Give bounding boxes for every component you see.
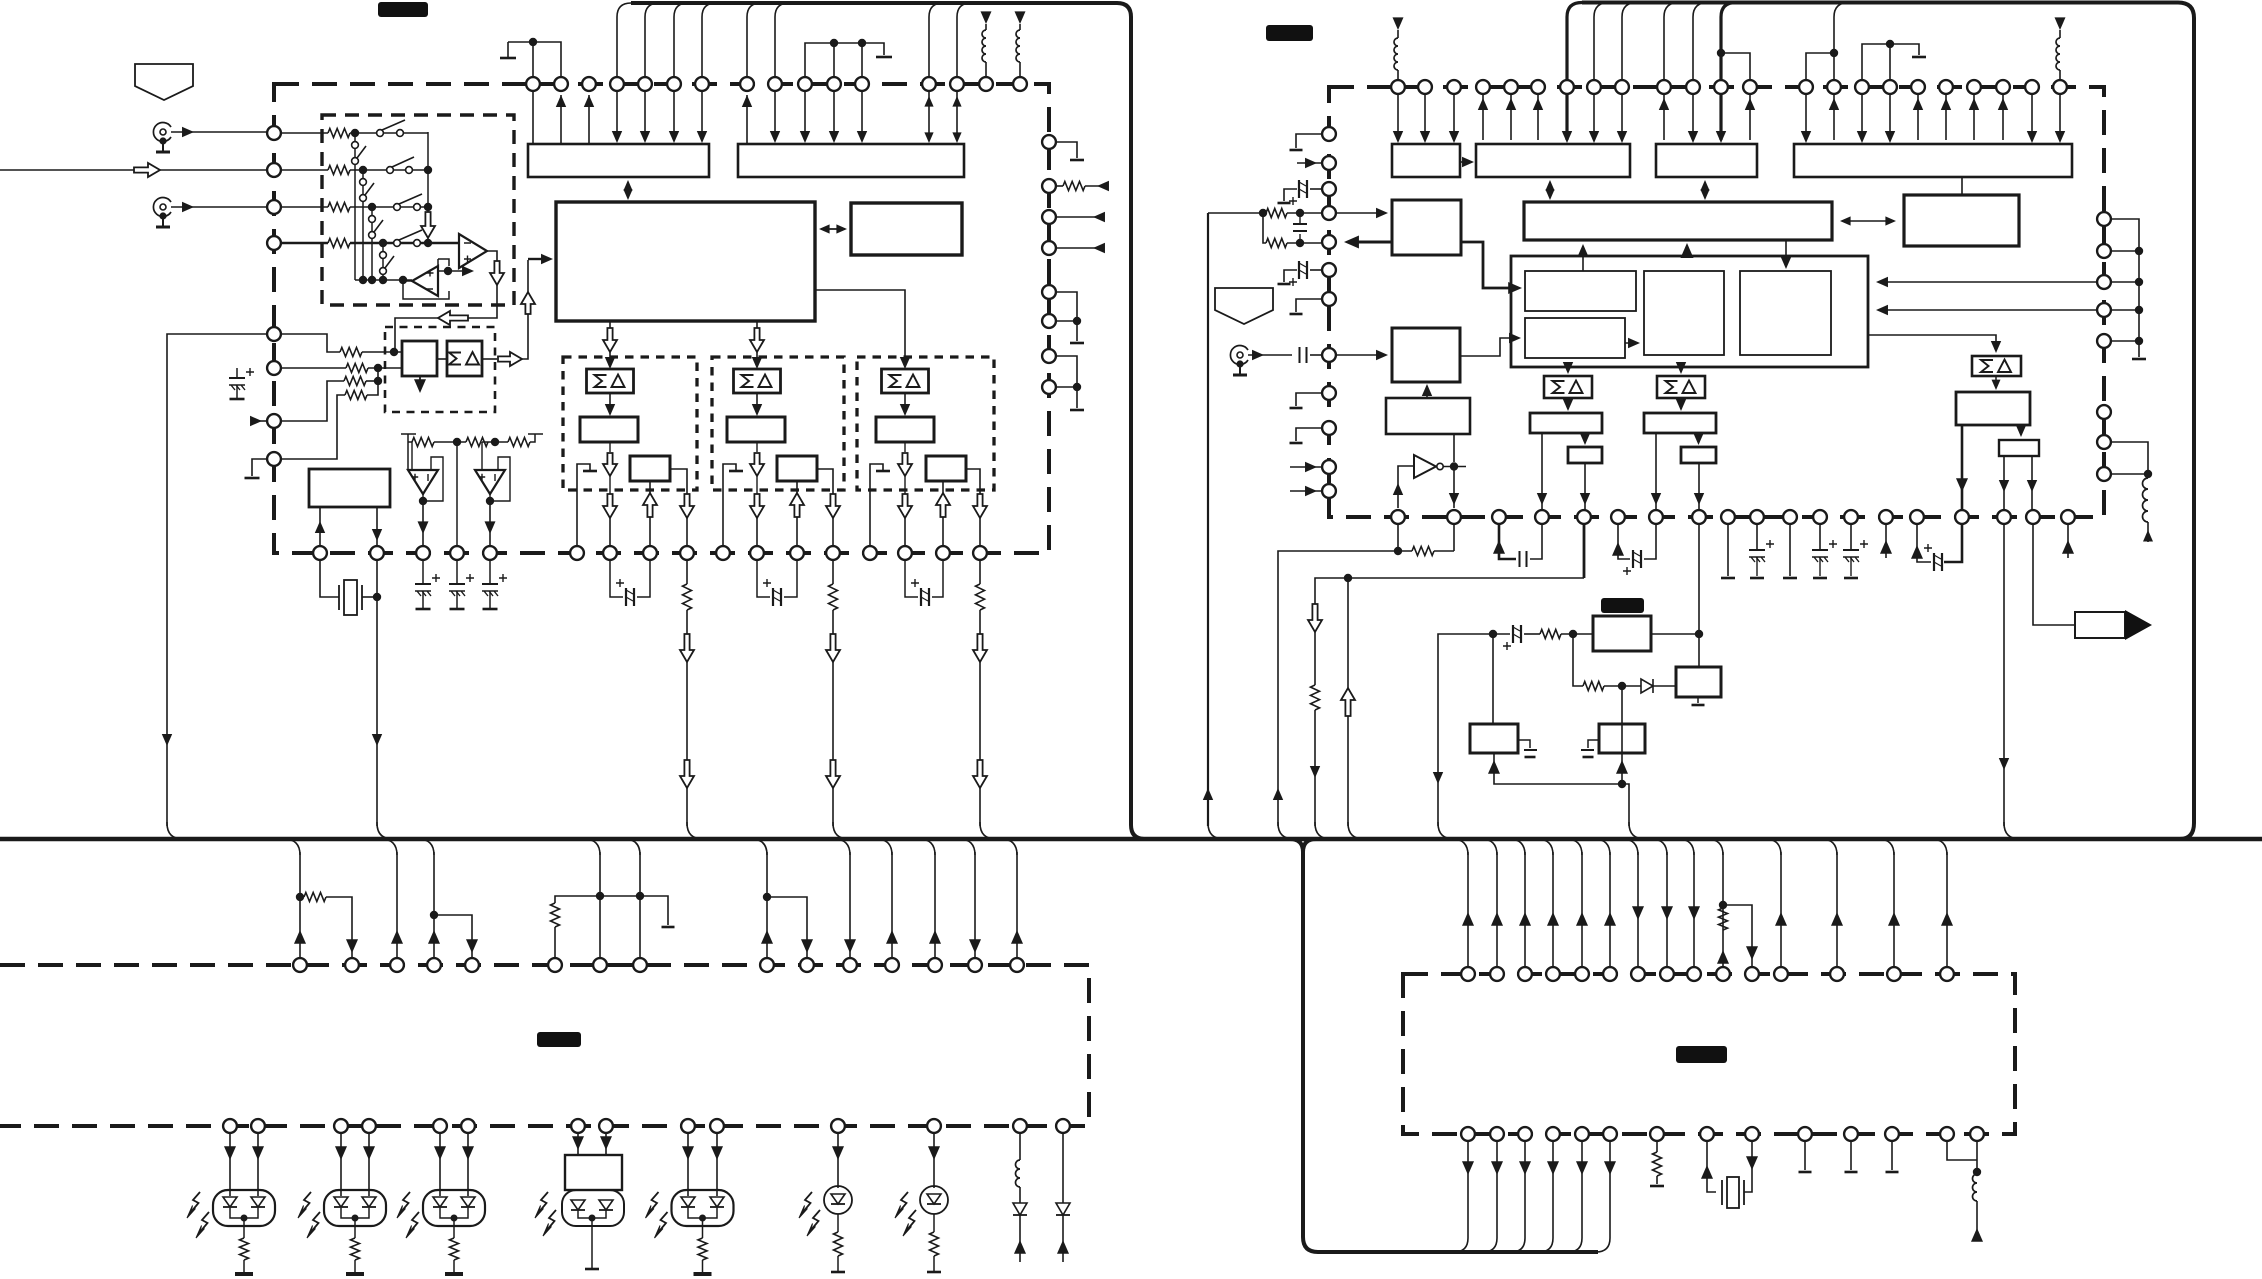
wire jack1 to pin bbox=[171, 131, 266, 133]
electrolytic cap pin y270 bbox=[1310, 269, 1321, 271]
wire pins to LED2 bbox=[341, 1134, 369, 1196]
dual IR LED module LED4 bbox=[562, 1190, 624, 1226]
wire pin x1594 into U4b bbox=[1593, 94, 1595, 140]
wire adc rowA into amp bbox=[362, 351, 402, 353]
IC3 bottom pin x578 bbox=[571, 1119, 585, 1133]
pentagon reference tag bbox=[135, 64, 193, 100]
IC3 bottom pin x1063 bbox=[1056, 1119, 1070, 1133]
arrow pin1886 stub bbox=[1885, 525, 1887, 558]
wire pin368 to ADC rowB bbox=[274, 367, 346, 369]
IC2 top pin x1918 bbox=[1911, 80, 1925, 94]
bidirectional wire pin x929 to U1b bbox=[928, 91, 930, 140]
wire hp out to pin 2004 bbox=[2003, 456, 2005, 510]
IC2 bottom pin x1454 bbox=[1447, 510, 1461, 524]
op-amp B1 (down) bbox=[408, 470, 438, 494]
IC1 right pin y387 bbox=[1042, 380, 1056, 394]
junction dot bbox=[1618, 682, 1626, 690]
wire pin334 to ADC rowA bbox=[274, 334, 340, 352]
block U2 DSP core bbox=[556, 202, 815, 321]
fold merge x1278 bbox=[1278, 822, 1294, 839]
wire row y207 bbox=[350, 206, 428, 208]
IC4 bottom pin x1610 bbox=[1603, 1127, 1617, 1141]
wire fold to pin640 bbox=[624, 839, 640, 855]
IC1 bottom pin x723 bbox=[716, 546, 730, 560]
bus arrow U5-U6 bidirectional bbox=[1842, 220, 1894, 222]
wire long net x167 from pin334 to fold bbox=[167, 334, 274, 826]
IC3 bottom pin x468 bbox=[461, 1119, 475, 1133]
block U3 memory bbox=[851, 203, 962, 255]
sigma-delta DAC ch1 bbox=[587, 369, 634, 393]
arrow pin y355 into U9 bbox=[1337, 354, 1384, 356]
wire fold to pin975 bbox=[959, 839, 975, 855]
IC2 bottom pin x2033 bbox=[2026, 510, 2040, 524]
resistor IR bbox=[1540, 630, 1561, 639]
block U4a interface bbox=[1392, 144, 1460, 177]
hollow arrow ch1 out1 bbox=[603, 494, 617, 518]
IC1 bottom pin x905 bbox=[898, 546, 912, 560]
arrow input pin y467 bbox=[1290, 466, 1321, 468]
IC3 bottom pin x1020 bbox=[1013, 1119, 1027, 1133]
IC3 top pin x640 bbox=[633, 958, 647, 972]
wire IR node down to T1 bbox=[1492, 634, 1494, 724]
arrow U7a up to U5 bbox=[1582, 246, 1584, 271]
wire T3 base feed bbox=[1621, 686, 1623, 784]
external input wire bbox=[0, 169, 266, 171]
hollow arrow ch1 out2 bbox=[686, 518, 688, 546]
wire filter to pin x1542 bbox=[1541, 433, 1543, 510]
wire pin1049/142 gnd bbox=[1057, 142, 1077, 158]
IC2 top pin x2032 bbox=[2025, 80, 2039, 94]
IC3 top pin x300 bbox=[293, 958, 307, 972]
sigma-delta DAC ch2 bbox=[734, 369, 781, 393]
DAC channel 2 dashed sub-box bbox=[712, 357, 844, 490]
IC2 right pin y341 bbox=[2097, 334, 2111, 348]
IC1 bottom pin x320 bbox=[313, 546, 327, 560]
wire fold to pin935 bbox=[919, 839, 935, 855]
wire center rail to pin457 bbox=[456, 442, 458, 546]
IC4 bottom pin x1805 bbox=[1798, 1127, 1812, 1141]
IC4 bottom pin x1752 bbox=[1745, 1127, 1759, 1141]
junction dot selector bus bbox=[368, 276, 376, 284]
wire pin1063 diode bbox=[1062, 1134, 1064, 1203]
IC1 right pin y356 bbox=[1042, 349, 1056, 363]
wire pin x702 into U1a (arrow down) bbox=[701, 91, 703, 140]
diode D1 bbox=[1641, 679, 1653, 693]
sigma-delta DAC x1568 bbox=[1544, 376, 1592, 398]
wire opamp A2 feedback loop bbox=[403, 259, 449, 299]
IC4 top pin x1525 bbox=[1518, 967, 1532, 981]
IC3 top pin x767 bbox=[760, 958, 774, 972]
wire IR div down bbox=[1573, 634, 1583, 686]
ground bbox=[876, 56, 892, 59]
wire pin x1918 into U4d bbox=[1917, 94, 1919, 140]
block U7a bbox=[1525, 271, 1636, 311]
wire pin x805 into U1b (arrow down) bbox=[804, 91, 806, 140]
common cathode LED4 bbox=[578, 1210, 606, 1268]
IC1 bottom pin x797 bbox=[790, 546, 804, 560]
block U10 bias bbox=[1386, 398, 1470, 434]
junction dot row y243 bbox=[379, 239, 387, 247]
wire pin1398 net bbox=[1397, 525, 1399, 551]
block DAC out x1681 bbox=[1681, 447, 1716, 463]
IC1 top pin x805 bbox=[798, 77, 812, 91]
common cathode wire LED1 bbox=[230, 1208, 258, 1226]
arrow input pin y491 bbox=[1290, 490, 1321, 492]
wire fold to IC4 pin1723 bbox=[1707, 839, 1723, 855]
block LED driver bbox=[565, 1155, 622, 1190]
junction dot crystal bbox=[373, 593, 381, 601]
hollow arrow left to ADC bbox=[438, 311, 468, 325]
block headphone out bbox=[1999, 440, 2039, 456]
resistor to pin555 bbox=[555, 896, 600, 903]
fold merge ch1 bbox=[687, 822, 703, 839]
electrolytic capacitor on rowB bbox=[236, 368, 238, 378]
wire B2 plus input bbox=[482, 442, 488, 470]
hollow arrow filter out ch1 bbox=[609, 442, 611, 452]
wire pin x1664 into U4c bbox=[1663, 94, 1665, 140]
block U7 DSP sub-system bbox=[1511, 256, 1868, 367]
wire branch to fold x1278 bbox=[1278, 551, 1398, 826]
junction dot row y170 bbox=[359, 166, 367, 174]
switch S row y133 bbox=[377, 130, 384, 137]
IC2 bottom pin x1499 bbox=[1492, 510, 1506, 524]
IC3 top pin x555 bbox=[548, 958, 562, 972]
arrow down x1315 bbox=[1310, 766, 1320, 778]
IC2 top pin x1664 bbox=[1657, 80, 1671, 94]
ground hook ch3 bbox=[870, 464, 883, 546]
block U4d interface bbox=[1794, 144, 2072, 177]
IC4 bottom pin x1553 bbox=[1546, 1127, 1560, 1141]
block U1a digital I/O buffer bbox=[528, 144, 709, 177]
DAC channel 3 dashed sub-box bbox=[857, 357, 994, 490]
IC4 top pin x1894 bbox=[1887, 967, 1901, 981]
IC1 right pin y217 bbox=[1042, 210, 1056, 224]
wire fold to IC4 pin x1497 bbox=[1481, 839, 1497, 855]
wire U1a to pin x561 (arrow up) bbox=[560, 95, 562, 144]
electrolytic pin1820 bbox=[1819, 525, 1821, 550]
IC2 right pin y474 bbox=[2097, 467, 2111, 481]
wire pin x2003 into U4d bbox=[2002, 94, 2004, 140]
block transistor T2 bbox=[1676, 667, 1721, 697]
IR emission arrows LED4 bbox=[539, 1192, 548, 1212]
wire pin to LED x934 bbox=[933, 1134, 935, 1188]
sigma-delta headphone bbox=[1972, 356, 2021, 376]
IC2 left pin y189 bbox=[1322, 182, 1336, 196]
IC2 bottom pin x1820 bbox=[1813, 510, 1827, 524]
dual IR LED module LED3 bbox=[423, 1190, 485, 1226]
IC2 left pin y213 bbox=[1322, 206, 1336, 220]
wire ch3 to fold bbox=[979, 610, 981, 826]
wire pins 1806-1834 tie bbox=[1806, 53, 1834, 80]
wire pin2033 to connector tag bbox=[2033, 525, 2075, 625]
IC2 top pin x1890 bbox=[1883, 80, 1897, 94]
diode D3 bbox=[1056, 1203, 1070, 1215]
selector ladder wire x383 bbox=[382, 243, 384, 280]
inductor L at top pin x986 bbox=[985, 62, 987, 77]
IC1 right pin y321 bbox=[1042, 314, 1056, 328]
junction dot selector bus bbox=[379, 276, 387, 284]
wire fold to IC4 pin x1781 bbox=[1765, 839, 1781, 855]
IC2 bottom pin x1962 bbox=[1955, 510, 1969, 524]
sigma-delta modulator ADC bbox=[447, 341, 482, 376]
resistor below LED1 bbox=[243, 1226, 245, 1238]
IC4 bottom pin x1582 bbox=[1575, 1127, 1589, 1141]
black label IR receiver bbox=[1601, 598, 1644, 613]
wire pin x645 to top bus bbox=[645, 3, 659, 77]
IC2 top pin x1425 bbox=[1418, 80, 1432, 94]
IC2 bottom pin x1728 bbox=[1721, 510, 1735, 524]
IC1 left pin y334 bbox=[267, 327, 281, 341]
wire pin x1946 into U4d bbox=[1945, 94, 1947, 140]
arrow U7 into sigma-delta x1568 bbox=[1567, 367, 1569, 372]
wire IC4 pin x1525 to bus bbox=[1511, 1141, 1525, 1252]
wire U10 to inverter node bbox=[1453, 434, 1455, 462]
IC1 top pin x834 bbox=[827, 77, 841, 91]
IC1 top pin x645 bbox=[638, 77, 652, 91]
wire IC1 left pin y170 into selector bbox=[274, 169, 328, 171]
bias network pins y213/y243 bbox=[1208, 212, 1266, 214]
LED B in LED5 bbox=[710, 1197, 724, 1207]
IC4 top pin x1610 bbox=[1603, 967, 1617, 981]
wire pin459 to ADC rowD bbox=[274, 395, 345, 459]
wire pin y134 gnd bbox=[1296, 134, 1321, 148]
wire ADC output up to DSP bbox=[522, 260, 528, 359]
arrow U7b to U7c bbox=[1625, 342, 1638, 344]
block headphone filter bbox=[1956, 392, 2030, 425]
junction dot row y133 bbox=[351, 129, 359, 137]
arrow up below D2 bbox=[1019, 1215, 1021, 1262]
arrow sd to filter ch2 bbox=[756, 393, 758, 407]
IC2 top pin x1483 bbox=[1476, 80, 1490, 94]
IC2 right pin y310 bbox=[2097, 303, 2111, 317]
resistor pin1657 gnd bbox=[1656, 1141, 1658, 1152]
block U5 digital filter bar bbox=[1524, 202, 1832, 240]
IC4 bottom pin x1977 bbox=[1970, 1127, 1984, 1141]
IC4 top pin x1638 bbox=[1631, 967, 1645, 981]
wire pin x674 into U1a (arrow down) bbox=[673, 91, 675, 140]
IC2 bottom pin x1699 bbox=[1692, 510, 1706, 524]
wire pin x1750 into U4c bbox=[1749, 94, 1751, 140]
IC3 system control dashed border (bottom left) bbox=[0, 965, 1089, 1126]
wire pins 292/321 tie gnd bbox=[1057, 292, 1077, 341]
wire fold to IC4 pin x1638 bbox=[1622, 839, 1638, 855]
arrow hp filter to out bbox=[2020, 425, 2022, 434]
hollow arrow ch3 fb bbox=[942, 481, 944, 546]
wire pin x834 into U1b (arrow down) bbox=[833, 91, 835, 140]
wire adc rowD join bbox=[367, 368, 378, 395]
wire pin x929 to top bus bbox=[929, 3, 943, 77]
electrolytic decoupling cap below pin x490 bbox=[489, 560, 491, 584]
electrolytic cap pin y189 bbox=[1310, 188, 1321, 190]
wire selector rows right rail bbox=[427, 132, 429, 243]
IC3 top pin x850 bbox=[843, 958, 857, 972]
fold merge ch2 bbox=[833, 822, 849, 839]
black label IC4 name bbox=[1676, 1046, 1727, 1063]
wire pin377 down to fold bbox=[376, 560, 378, 826]
wire pin1790 gnd bbox=[1789, 525, 1791, 576]
electrolytic cap IR bbox=[1493, 633, 1510, 635]
resistor below LED x934 bbox=[933, 1214, 935, 1232]
bus arrow U1a-U2 bidirectional bbox=[627, 185, 629, 195]
IC1 top pin x957 bbox=[950, 77, 964, 91]
block DAC out ch1 bbox=[630, 456, 670, 481]
IC1 bottom pin x943 bbox=[936, 546, 950, 560]
wire pin421 to ADC rowC bbox=[258, 420, 274, 422]
block U8 input DAC bbox=[1392, 200, 1461, 255]
bus arrow U4b-U5 bidirectional bbox=[1549, 184, 1551, 196]
wire jack to cap bbox=[1248, 354, 1292, 356]
wire IC4 pin x1610 to bus bbox=[1596, 1141, 1610, 1252]
block U1b digital I/O buffer bbox=[738, 144, 964, 177]
wire into sigma-delta ch2 bbox=[756, 352, 758, 360]
wire pin x702 to top bus bbox=[702, 3, 716, 77]
board outline (right PCB) top edge and right edge bbox=[1582, 3, 2194, 840]
dual IR LED module LED2 bbox=[324, 1190, 386, 1226]
electrolytic cap ch3 bbox=[905, 560, 918, 597]
IC2 left pin y428 bbox=[1322, 421, 1336, 435]
IC2 right pin y412 bbox=[2097, 405, 2111, 419]
LED A in LED3 bbox=[433, 1197, 447, 1207]
black label IC1 name bbox=[378, 2, 428, 17]
op-amp B2 (down) bbox=[475, 470, 505, 494]
ground hook ch1 bbox=[577, 464, 590, 546]
wire y578 rail bbox=[1315, 578, 1584, 826]
junction dot row y207 bbox=[368, 203, 376, 211]
wire row y170 bbox=[350, 169, 428, 171]
RCA jack input 2 bbox=[153, 198, 171, 217]
arrow sd to block x1568 bbox=[1567, 398, 1569, 409]
wire pins to LED3 bbox=[440, 1134, 468, 1196]
resistor R adc rowB bbox=[346, 364, 368, 373]
resistor R adc rowD bbox=[345, 391, 367, 400]
IC2 bottom pin x1398 bbox=[1391, 510, 1405, 524]
IC2 bottom pin x1656 bbox=[1649, 510, 1663, 524]
junction dot bbox=[830, 39, 838, 47]
inductor below 1977 bbox=[1973, 1174, 1978, 1201]
electrolytic decoupling cap below pin x423 bbox=[422, 560, 424, 584]
IC2 top pin x1454 bbox=[1447, 80, 1461, 94]
wire ch1 to fold bbox=[686, 610, 688, 826]
wire pin2004 to fold bbox=[2003, 525, 2005, 826]
wire crystal left leg bbox=[320, 560, 339, 597]
arrow input pin y163 bbox=[1297, 162, 1321, 164]
hollow arrow DSP to DAC ch2 bbox=[756, 321, 758, 328]
wire IR out to transistor node bbox=[1651, 633, 1699, 635]
junction dot bbox=[1489, 630, 1497, 638]
IC1 left pin y207 bbox=[267, 200, 281, 214]
wire opamp A2 output to selector bus bbox=[403, 280, 412, 281]
IC1 right pin y248 bbox=[1042, 241, 1056, 255]
hollow arrow ch3 out1 bbox=[898, 494, 912, 518]
hollow arrow filter out ch2 bbox=[756, 442, 758, 452]
hollow arrow down x1315 bbox=[1308, 604, 1322, 632]
block oscillator bbox=[309, 469, 390, 507]
wire fold to IC4 pin x1582 bbox=[1566, 839, 1582, 855]
wire fold to IC4 pin x1837 bbox=[1821, 839, 1837, 855]
hollow arrow ch1 fb bbox=[649, 481, 651, 546]
wire osc to pin 377 (arrow down) bbox=[376, 507, 378, 546]
IC3 top pin x397 bbox=[390, 958, 404, 972]
IC1 bottom pin x490 bbox=[483, 546, 497, 560]
wire B2 out to pin490 bbox=[489, 501, 491, 546]
hollow arrow into opamp row bbox=[421, 212, 435, 238]
fold merge ch3 bbox=[980, 822, 996, 839]
IC1 left pin y459 bbox=[267, 452, 281, 466]
inductor L at top pin x1020 bbox=[1019, 62, 1021, 77]
wire left rail x1208 to fold bbox=[1207, 213, 1209, 826]
IC2 top pin x2003 bbox=[1996, 80, 2010, 94]
wire fold to pin397 bbox=[381, 839, 397, 855]
resistor R adc rowA bbox=[340, 348, 362, 357]
IC3 top pin x1017 bbox=[1010, 958, 1024, 972]
IR emission arrows LED5 bbox=[650, 1192, 659, 1212]
IC2 top pin x1750 bbox=[1743, 80, 1757, 94]
wire pin x1483 into U4b bbox=[1482, 94, 1484, 140]
switch S row y170 bbox=[387, 167, 394, 174]
fold merge x377 bbox=[377, 822, 393, 839]
arrow U5 down to U7d bbox=[1785, 240, 1787, 266]
junction dot bbox=[858, 39, 866, 47]
wire pin1699 down bbox=[1698, 525, 1700, 634]
IC1 right pin y142 bbox=[1042, 135, 1056, 149]
IC4 bottom pin x1497 bbox=[1490, 1127, 1504, 1141]
IC2 left pin y355 bbox=[1322, 348, 1336, 362]
hollow arrow ch2 fb bbox=[796, 481, 798, 546]
wire pin x1806 into U4d bbox=[1805, 94, 1807, 140]
IC3 top pin x892 bbox=[885, 958, 899, 972]
wire fold to pin434 bbox=[418, 839, 434, 855]
IC3 bottom pin x838 bbox=[831, 1119, 845, 1133]
single LED x838 bbox=[824, 1186, 852, 1214]
wire pin x1834 into U4d bbox=[1833, 94, 1835, 140]
IC1 top pin x862 bbox=[855, 77, 869, 91]
resistor R adc rowC bbox=[344, 377, 366, 386]
wire fold to IC4 pin x1610 bbox=[1594, 839, 1610, 855]
wire fold to IC4 pin x1894 bbox=[1878, 839, 1894, 855]
resistor R rail 3 bbox=[508, 438, 530, 447]
junction dot A1 plus node bbox=[444, 267, 452, 275]
wire fold to pin850 bbox=[834, 839, 850, 855]
IC2 bottom pin x2068 bbox=[2061, 510, 2075, 524]
resistor IR2 bbox=[1583, 682, 1604, 691]
wire pin x1567 to top bus bbox=[1567, 3, 1582, 81]
arrow U10 to U9 bbox=[1426, 386, 1428, 398]
arrow U4a to U4b bbox=[1460, 161, 1468, 163]
IC2 bottom pin x1618 bbox=[1611, 510, 1625, 524]
IC4 top pin x1752 bbox=[1745, 967, 1759, 981]
fold merge x167 bbox=[167, 822, 183, 839]
wire pin x1721 into U4c bbox=[1719, 94, 1722, 140]
arrow ADC amp ground bbox=[419, 376, 421, 385]
board outline (left PCB) top edge and right edge bbox=[631, 3, 1145, 839]
resistor below ch2 bbox=[832, 560, 834, 584]
arrow filter to out x1568 bbox=[1584, 433, 1586, 443]
resistor below LED x838 bbox=[837, 1214, 839, 1232]
wire B1 feedback bbox=[423, 457, 443, 501]
wire pin533 to U1a bbox=[532, 91, 534, 144]
wire pins to LED1 bbox=[230, 1134, 258, 1196]
resistor below LED3 bbox=[453, 1226, 455, 1238]
LED A in LED4 bbox=[571, 1200, 585, 1210]
IC2 right pin y219 bbox=[2097, 212, 2111, 226]
arrow down x167 bbox=[162, 734, 172, 746]
IC1 top pin x929 bbox=[922, 77, 936, 91]
IC2 bottom pin x2004 bbox=[1997, 510, 2011, 524]
junction dot bbox=[2144, 470, 2152, 478]
wire adc rowC join bbox=[366, 380, 378, 382]
block DAC out ch3 bbox=[926, 456, 966, 481]
input selector dashed sub-box in IC1 bbox=[322, 115, 514, 305]
